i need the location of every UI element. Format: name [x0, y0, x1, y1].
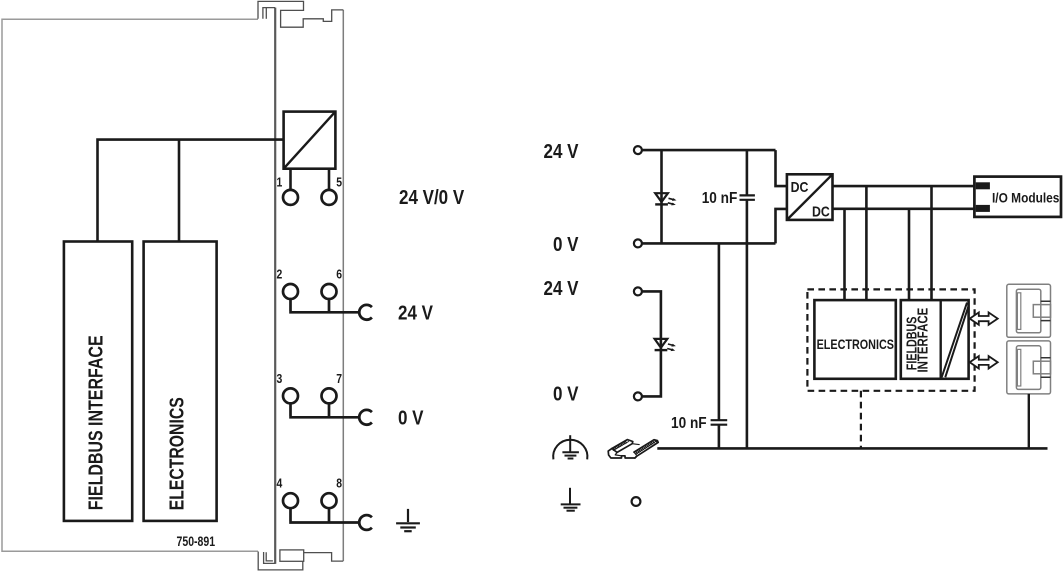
module bottom latch profile	[258, 550, 343, 570]
terminal 24V second	[634, 287, 642, 295]
terminal 0V	[634, 239, 642, 247]
svg-text:10 nF: 10 nF	[671, 415, 707, 432]
svg-text:3: 3	[277, 372, 283, 386]
feed to DC bottom	[776, 209, 787, 244]
terminal earth	[632, 497, 641, 506]
dashed module box	[807, 289, 974, 390]
fieldbus interface box right	[901, 300, 969, 379]
DIN rail symbol	[608, 440, 658, 458]
svg-text:DC: DC	[812, 203, 830, 219]
wire from boxes to supply square	[98, 140, 284, 242]
socket row 4/8	[359, 515, 372, 530]
left flange strip	[612, 440, 633, 453]
dashed wire module to rail	[860, 391, 862, 449]
svg-text:ELECTRONICS: ELECTRONICS	[817, 337, 894, 352]
0V rail	[642, 242, 776, 245]
svg-text:4: 4	[277, 476, 283, 490]
front cross-section outline	[608, 449, 636, 459]
capacitor C1 wire	[746, 150, 749, 448]
right flange strip	[634, 440, 658, 458]
svg-text:I/O Modules: I/O Modules	[992, 190, 1059, 206]
earth ground symbol bottom	[561, 488, 581, 511]
LED2 branch wires	[642, 291, 661, 396]
pin 8	[322, 493, 337, 508]
svg-text:24 V: 24 V	[398, 301, 434, 324]
24V rail	[642, 149, 776, 152]
pin 1	[289, 169, 292, 190]
double arrow bottom	[970, 356, 998, 368]
pin 3	[283, 388, 298, 403]
terminal 24V	[634, 146, 642, 154]
I/O pin bottom	[976, 205, 990, 212]
svg-text:DC: DC	[791, 179, 809, 195]
supply square with diagonal	[284, 112, 336, 169]
pin 5	[328, 169, 331, 190]
pin 6	[322, 284, 337, 299]
output bus top	[833, 185, 975, 188]
double arrow top	[970, 312, 998, 324]
svg-text:ELECTRONICS: ELECTRONICS	[165, 397, 189, 510]
svg-text:1: 1	[277, 175, 283, 189]
ground rail	[657, 447, 1047, 450]
socket row 3/7	[359, 410, 372, 425]
svg-text:0 V: 0 V	[398, 406, 424, 429]
capacitor C1 10 nF	[740, 195, 755, 199]
output bus bottom	[833, 208, 976, 211]
RJ45 connector top	[1007, 284, 1051, 337]
svg-text:2: 2	[277, 267, 283, 281]
svg-text:FIELDBUS INTERFACE: FIELDBUS INTERFACE	[84, 335, 107, 510]
web rear edge	[632, 443, 639, 446]
I/O pin top	[976, 182, 990, 189]
socket row 2/6	[359, 305, 372, 320]
terminal 0V second	[634, 392, 642, 400]
pin 7	[322, 388, 337, 403]
bus row 4/8	[289, 508, 359, 522]
svg-text:24 V: 24 V	[544, 140, 580, 163]
svg-text:0 V: 0 V	[553, 382, 579, 405]
I/O modules box	[974, 177, 1061, 217]
svg-text:INTERFACE: INTERFACE	[914, 307, 931, 372]
svg-text:24 V: 24 V	[544, 277, 580, 300]
svg-text:7: 7	[336, 372, 342, 386]
module right edge	[342, 10, 344, 561]
silhouette fill	[608, 440, 658, 458]
capacitor C2 wire	[718, 243, 721, 448]
drop wires to electronics	[845, 186, 867, 300]
svg-text:10 nF: 10 nF	[702, 190, 738, 207]
feed to DC top	[776, 150, 787, 186]
electronics box right	[814, 300, 895, 379]
svg-text:5: 5	[336, 175, 342, 189]
LED D1	[655, 193, 676, 205]
DC/DC converter U1	[787, 174, 833, 220]
wire RJ45 to rail	[1028, 394, 1030, 449]
fieldbus interface box	[64, 242, 132, 521]
LED D2	[655, 339, 676, 351]
bus row 2/6	[289, 299, 359, 312]
module top latch profile	[258, 1, 343, 27]
svg-text:24 V/0 V: 24 V/0 V	[399, 186, 465, 209]
module body outline (gray)	[2, 19, 258, 551]
bus row 3/7	[289, 403, 359, 417]
earth ground symbol left	[396, 509, 420, 531]
svg-text:0 V: 0 V	[553, 233, 579, 256]
pin 4	[283, 493, 298, 508]
pin 2	[283, 284, 298, 299]
electronics box	[144, 242, 217, 521]
svg-text:6: 6	[336, 267, 342, 281]
LED1 branch wire	[660, 150, 663, 243]
svg-text:750-891: 750-891	[177, 534, 216, 550]
RJ45 connector bottom	[1007, 341, 1051, 394]
functional earth symbol	[553, 435, 587, 459]
capacitor C2 10 nF	[711, 420, 728, 425]
module front edge	[274, 8, 276, 564]
svg-text:8: 8	[336, 476, 342, 490]
drop wires to fieldbus interface	[909, 186, 932, 300]
